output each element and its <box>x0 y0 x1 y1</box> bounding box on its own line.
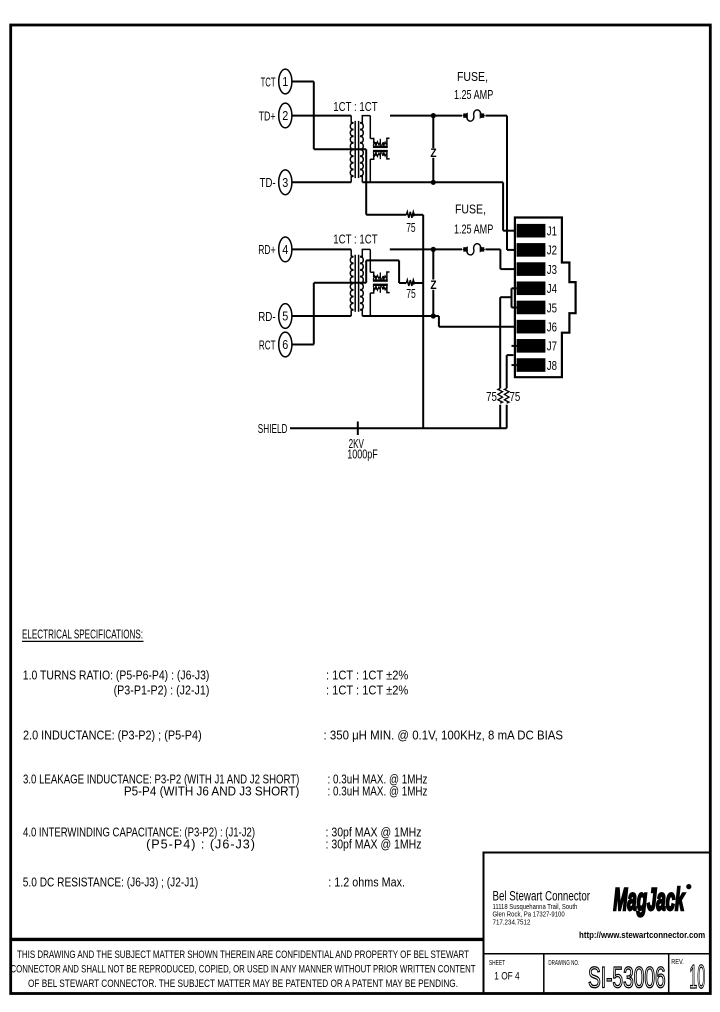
svg-text:REV.: REV. <box>671 959 684 966</box>
svg-text:CONNECTOR AND SHALL NOT BE REP: CONNECTOR AND SHALL NOT BE REPRODUCED, C… <box>11 964 476 976</box>
svg-text:J6: J6 <box>547 319 557 334</box>
svg-text:1CT : 1CT: 1CT : 1CT <box>333 232 378 246</box>
svg-text:http://www.stewartconnector.co: http://www.stewartconnector.com <box>579 930 705 941</box>
svg-text:FUSE,: FUSE, <box>457 70 488 84</box>
svg-text:: 0.3uH MAX. @ 1MHz: : 0.3uH MAX. @ 1MHz <box>328 785 428 799</box>
svg-text:1000pF: 1000pF <box>347 446 378 461</box>
svg-text:TCT: TCT <box>261 74 276 89</box>
svg-text:717.234.7512: 717.234.7512 <box>493 918 531 927</box>
svg-text:SI-53006: SI-53006 <box>588 962 666 995</box>
svg-text:75: 75 <box>486 389 497 404</box>
svg-text:: 30pf MAX @ 1MHz: : 30pf MAX @ 1MHz <box>326 838 422 852</box>
svg-text:OF BEL STEWART CONNECTOR. THE: OF BEL STEWART CONNECTOR. THE SUBJECT MA… <box>28 978 458 990</box>
svg-text:J8: J8 <box>547 358 557 373</box>
svg-text:RD+: RD+ <box>258 242 275 257</box>
svg-text:J5: J5 <box>547 300 557 315</box>
svg-text:5: 5 <box>282 309 288 324</box>
svg-text:(P3-P1-P2) : (J2-J1): (P3-P1-P2) : (J2-J1) <box>114 684 210 698</box>
svg-text:P5-P4 (WITH J6 AND J3 SHORT): P5-P4 (WITH J6 AND J3 SHORT) <box>124 785 300 799</box>
svg-text:J7: J7 <box>547 339 557 354</box>
svg-text:2.0 INDUCTANCE: (P3-P2) ; (P5-: 2.0 INDUCTANCE: (P3-P2) ; (P5-P4) <box>23 729 202 743</box>
svg-text:RCT: RCT <box>259 337 276 352</box>
svg-text:10: 10 <box>689 958 705 995</box>
svg-text:MagJack: MagJack <box>613 881 685 917</box>
svg-text:: 350 μH MIN. @ 0.1V, 100KHz,: : 350 μH MIN. @ 0.1V, 100KHz, 8 mA DC BI… <box>324 729 564 743</box>
svg-text:1: 1 <box>282 74 288 89</box>
svg-text:1.25 AMP: 1.25 AMP <box>454 222 493 236</box>
svg-text:75: 75 <box>406 286 416 301</box>
svg-text:TD+: TD+ <box>259 108 276 123</box>
svg-text:RD-: RD- <box>258 309 275 324</box>
svg-text:(P5-P4) : (J6-J3): (P5-P4) : (J6-J3) <box>146 838 255 852</box>
svg-text:: 1CT : 1CT ±2%: : 1CT : 1CT ±2% <box>326 684 408 698</box>
svg-text:SHEET: SHEET <box>489 960 506 967</box>
svg-text:1CT : 1CT: 1CT : 1CT <box>333 100 378 114</box>
svg-text:Z: Z <box>430 148 436 160</box>
svg-text:75: 75 <box>406 220 415 235</box>
svg-text:J2: J2 <box>547 243 557 258</box>
svg-text:J1: J1 <box>547 224 557 239</box>
svg-text:J4: J4 <box>547 281 557 296</box>
svg-text:SHIELD: SHIELD <box>258 421 288 436</box>
svg-text:Z: Z <box>430 280 436 292</box>
svg-text:J3: J3 <box>547 262 557 277</box>
svg-text:: 1.2 ohms Max.: : 1.2 ohms Max. <box>328 876 405 890</box>
svg-text:: 1CT : 1CT ±2%: : 1CT : 1CT ±2% <box>326 668 408 682</box>
svg-text:5.0 DC RESISTANCE: (J6-J3) ; (: 5.0 DC RESISTANCE: (J6-J3) ; (J2-J1) <box>23 876 199 890</box>
svg-text:1 OF 4: 1 OF 4 <box>494 970 519 982</box>
svg-text:FUSE,: FUSE, <box>455 202 486 216</box>
svg-text:6: 6 <box>282 337 288 352</box>
svg-text:DRAWING NO.: DRAWING NO. <box>548 960 579 967</box>
svg-text:3: 3 <box>282 175 288 190</box>
svg-text:75: 75 <box>510 389 521 404</box>
svg-text:ELECTRICAL SPECIFICATIONS:: ELECTRICAL SPECIFICATIONS: <box>22 628 143 642</box>
svg-text:1.0 TURNS RATIO: (P5-P6-P4) :: 1.0 TURNS RATIO: (P5-P6-P4) : (J6-J3) <box>23 668 210 682</box>
svg-text:THIS DRAWING AND THE SUBJECT M: THIS DRAWING AND THE SUBJECT MATTER SHOW… <box>17 949 469 961</box>
svg-text:TD-: TD- <box>260 175 276 190</box>
svg-text:4: 4 <box>282 242 288 257</box>
svg-text:2: 2 <box>282 108 288 123</box>
svg-text:1.25 AMP: 1.25 AMP <box>454 88 493 102</box>
